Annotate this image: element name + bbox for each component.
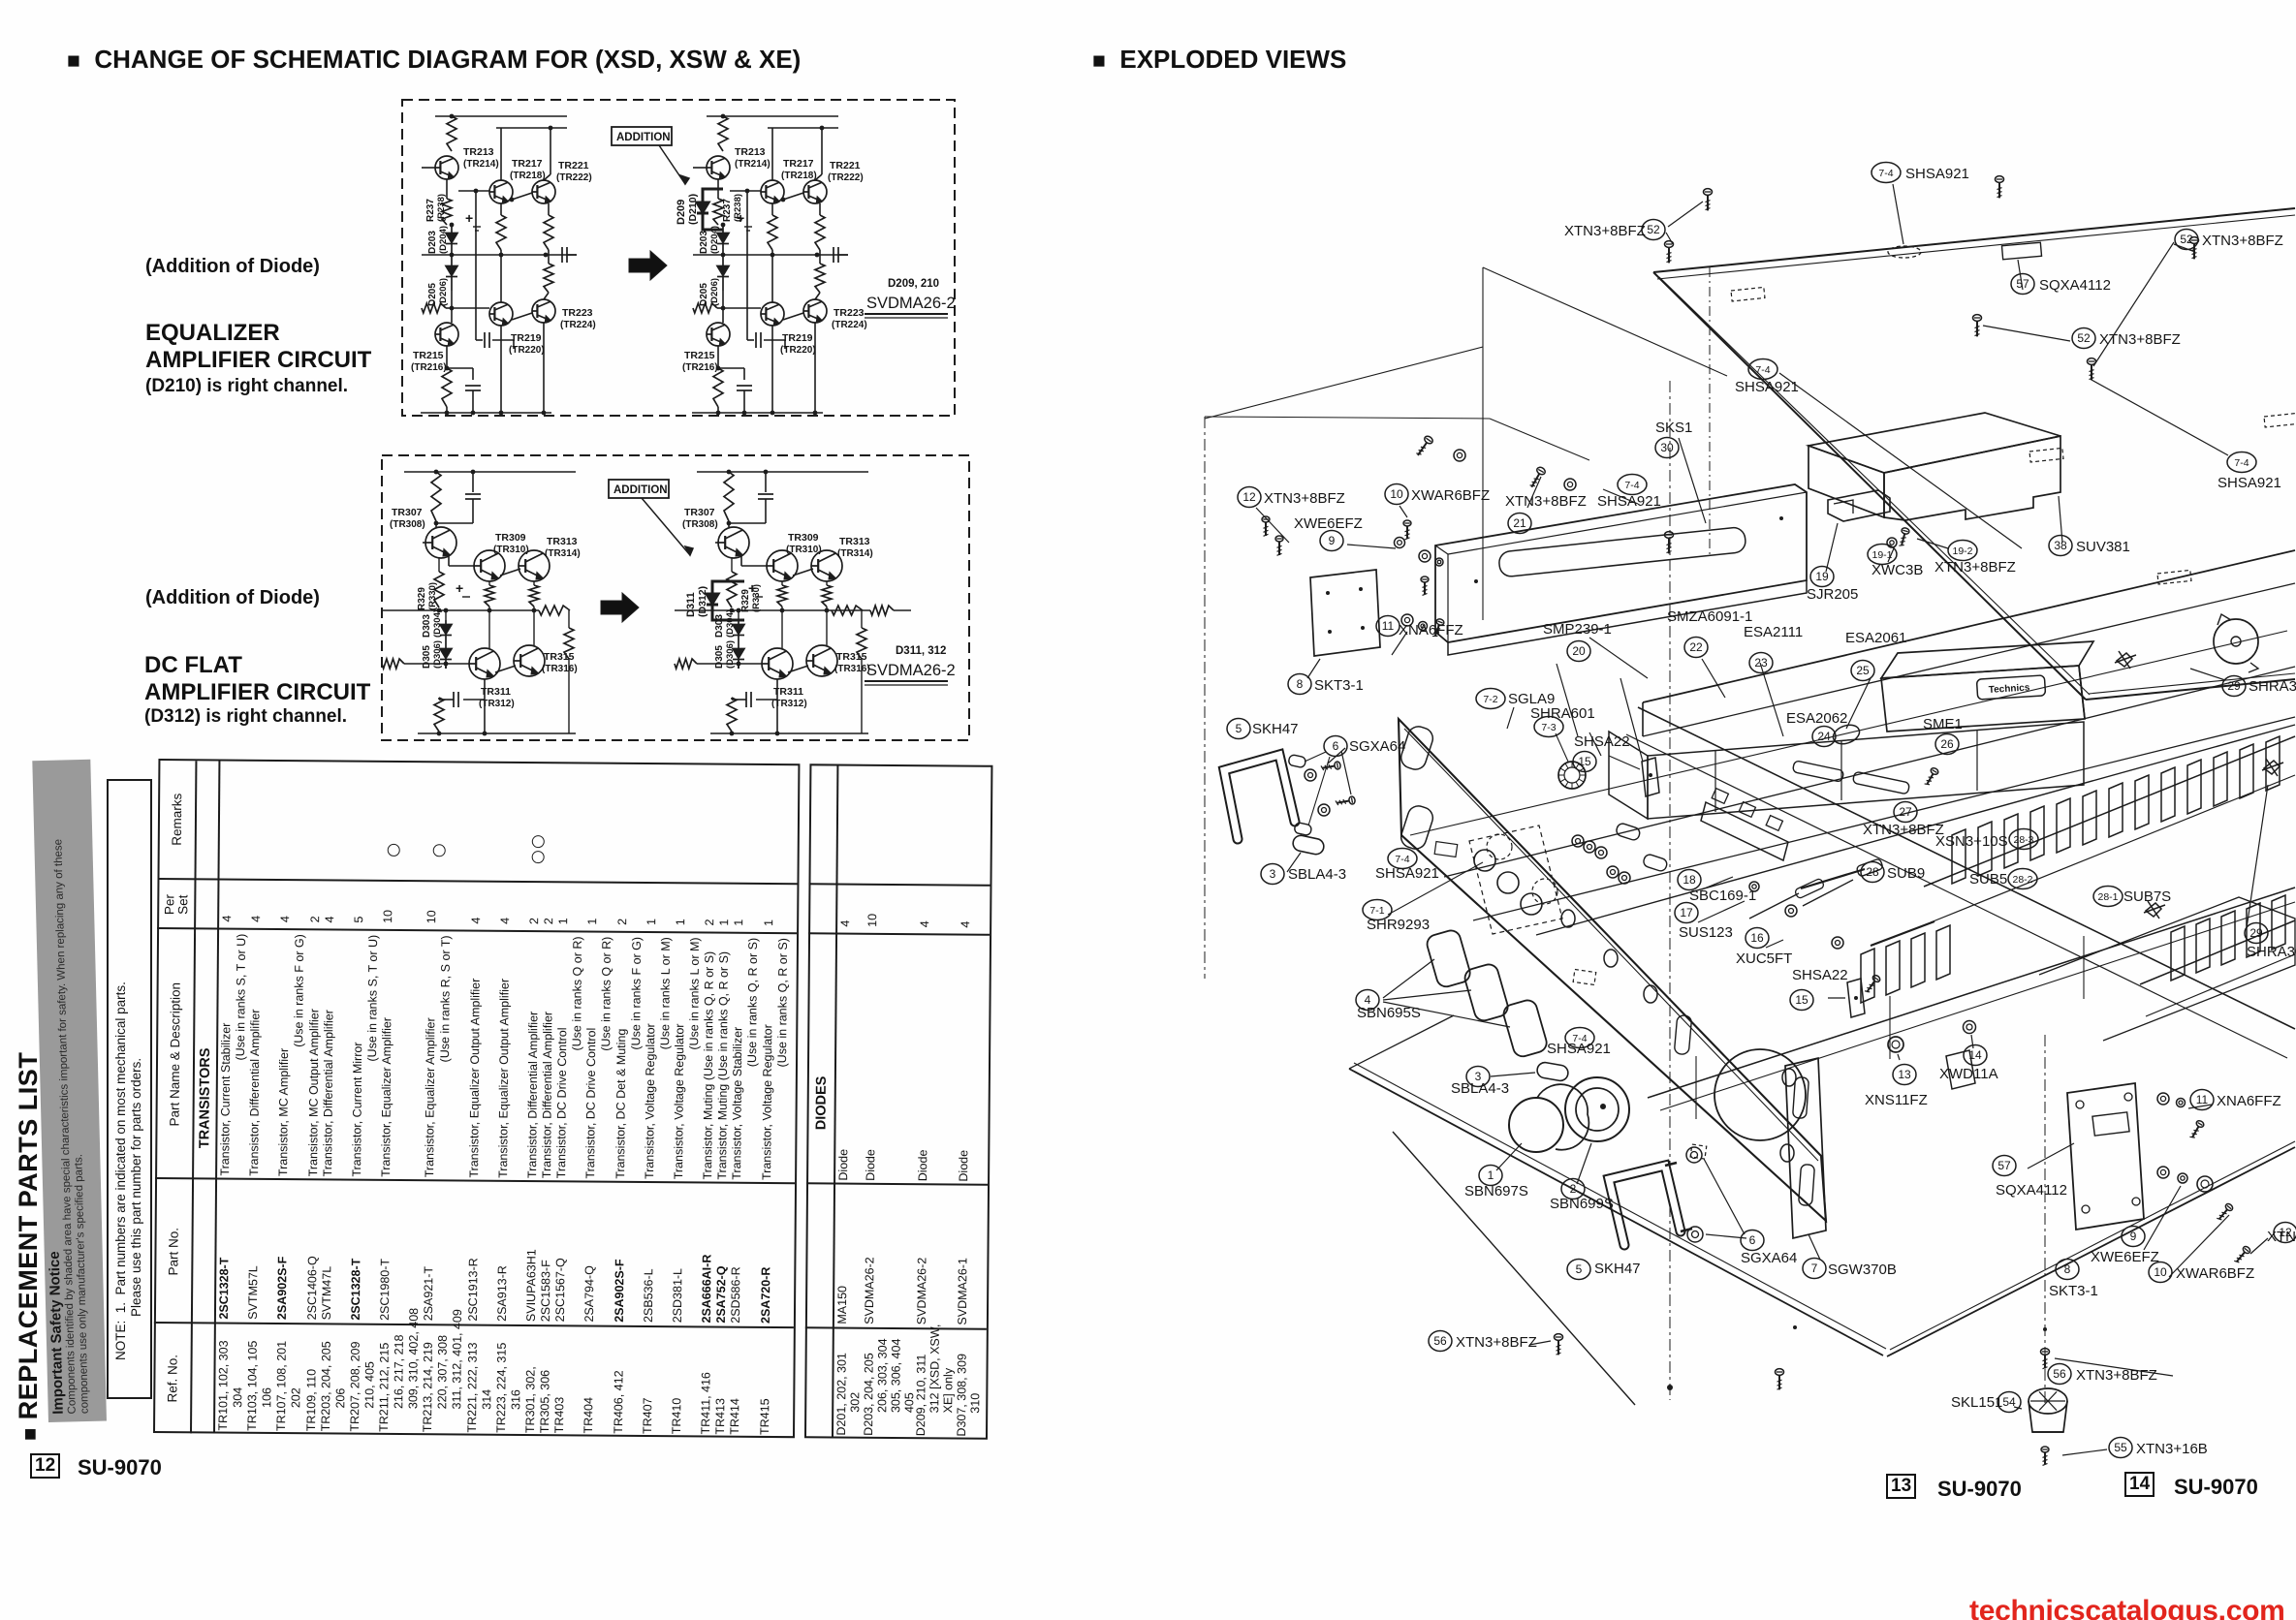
chassis front wall edges xyxy=(1638,707,2295,1029)
label circle 10 xyxy=(1385,484,1408,505)
label circle 17 xyxy=(1675,903,1698,923)
label circle 10 xyxy=(2149,1262,2172,1283)
dc flat circuit left half xyxy=(382,470,581,736)
svg-text:56: 56 xyxy=(1433,1334,1447,1348)
cylinder SBLA4-3 lower xyxy=(1536,1061,1569,1081)
svg-text:1: 1 xyxy=(1488,1168,1494,1182)
small bracket center xyxy=(1946,1050,1975,1089)
label circle 13 xyxy=(1893,1065,1916,1085)
svg-text:27: 27 xyxy=(1899,805,1912,819)
svg-text:ESA2111: ESA2111 xyxy=(1744,624,1803,640)
svg-text:SQXA4112: SQXA4112 xyxy=(1996,1182,2067,1199)
label circle 27 xyxy=(1894,802,1917,823)
handle SKH47 upper xyxy=(1224,755,1295,839)
bottom plate screws xyxy=(1555,1334,1563,1355)
label circle 8 xyxy=(1288,674,1311,695)
dc flat circuit right half xyxy=(675,470,873,736)
front panel big hole xyxy=(1714,1049,1806,1140)
svg-text:19: 19 xyxy=(1815,570,1829,583)
svg-text:28: 28 xyxy=(1866,865,1879,879)
svg-text:56: 56 xyxy=(2053,1367,2066,1381)
svg-text:21: 21 xyxy=(1513,516,1526,530)
cylinder SBLA4-3 upper xyxy=(1292,834,1326,856)
svg-text:30: 30 xyxy=(1660,441,1674,454)
svg-text:SGW370B: SGW370B xyxy=(1828,1262,1897,1278)
bracket SKT3-1 xyxy=(1310,570,1380,656)
label circle 38 xyxy=(2049,536,2072,556)
svg-text:SUV381: SUV381 xyxy=(2076,539,2130,555)
svg-text:5: 5 xyxy=(1576,1262,1583,1276)
label circle 23 xyxy=(1749,653,1773,673)
label circle 7-3 xyxy=(1534,717,1563,737)
svg-text:5: 5 xyxy=(1236,722,1242,735)
ADDITION callout box2 xyxy=(609,480,669,498)
svg-text:57: 57 xyxy=(2016,277,2029,291)
svg-text:XNA6FFZ: XNA6FFZ xyxy=(1399,622,1463,639)
cylinders SGXA64 upper xyxy=(1288,754,1306,767)
label circle 21 xyxy=(1508,514,1531,534)
label circle 9 xyxy=(1320,531,1343,551)
svg-text:17: 17 xyxy=(1680,906,1693,919)
replacement parts list title (rotated) xyxy=(14,1024,48,1441)
svg-text:SHSA22: SHSA22 xyxy=(1792,967,1848,983)
label circle 4 xyxy=(1356,990,1379,1011)
shafts xyxy=(1801,869,1865,888)
svg-text:XTN3+8BFZ: XTN3+8BFZ xyxy=(1934,559,2016,576)
svg-text:SHSA921: SHSA921 xyxy=(1597,493,1661,510)
label circle 28-1 xyxy=(2093,887,2123,907)
svg-text:54: 54 xyxy=(2002,1395,2016,1409)
svg-text:28-3: 28-3 xyxy=(2013,834,2033,846)
big change arrow box1 xyxy=(629,251,667,280)
label circle 7-4 xyxy=(2227,452,2256,473)
svg-text:SMZA6091-1: SMZA6091-1 xyxy=(1667,608,1752,625)
svg-text:15: 15 xyxy=(1578,755,1591,768)
label circle 15 xyxy=(1573,752,1596,772)
construction lines xyxy=(1669,381,1671,1400)
svg-text:SMP239-1: SMP239-1 xyxy=(1543,621,1612,638)
plate SHSA22 upper xyxy=(1642,758,1659,796)
label circle 29 xyxy=(2245,923,2268,944)
svg-text:7-4: 7-4 xyxy=(1755,364,1770,376)
svg-text:XUC5FT: XUC5FT xyxy=(1736,950,1792,967)
ADDITION callout box1 xyxy=(612,127,672,145)
handle screws xyxy=(1305,769,1316,781)
svg-text:SGXA64: SGXA64 xyxy=(1741,1250,1797,1266)
svg-text:3: 3 xyxy=(1270,867,1276,881)
buttons SBN695S xyxy=(1425,928,1472,989)
panel marker rects xyxy=(1434,842,1458,857)
svg-text:XTN3+8BFZ: XTN3+8BFZ xyxy=(1264,490,1345,507)
label circle 56 xyxy=(1429,1331,1452,1352)
svg-text:SME1: SME1 xyxy=(1923,716,1963,732)
equalizer circuit right half xyxy=(682,114,867,416)
label circle 11 xyxy=(1376,616,1400,637)
svg-text:SGXA64: SGXA64 xyxy=(1349,738,1405,755)
clip SHRA306 shapes xyxy=(2117,653,2132,667)
svg-text:SUB7S: SUB7S xyxy=(2123,888,2171,905)
panel dashed hole marks xyxy=(1888,246,1921,258)
dc flat amplifier schematic box xyxy=(382,455,969,740)
screws on cover xyxy=(1704,189,1713,211)
watermark xyxy=(1969,1595,2284,1620)
svg-text:SHSA921: SHSA921 xyxy=(2217,475,2281,491)
svg-text:XTN3+8BFZ: XTN3+8BFZ xyxy=(2099,331,2181,348)
svg-text:SHRA601: SHRA601 xyxy=(1530,705,1595,722)
svg-text:SUB5: SUB5 xyxy=(1969,871,2007,888)
svg-text:XTN3+8BFZ: XTN3+8BFZ xyxy=(2076,1367,2157,1384)
svg-text:SKL151: SKL151 xyxy=(1951,1394,2002,1411)
svg-text:14: 14 xyxy=(1968,1048,1982,1062)
svg-text:SHRA306: SHRA306 xyxy=(2247,944,2296,960)
label circle 57 xyxy=(1993,1156,2016,1176)
svg-text:SHSA921: SHSA921 xyxy=(1735,379,1799,395)
label circle 16 xyxy=(1746,928,1769,949)
sub board SHR9293 dashed outline xyxy=(1469,826,1562,934)
svg-text:XWE6EFZ: XWE6EFZ xyxy=(1294,515,1363,532)
label circle 19-2 xyxy=(1948,541,1977,561)
svg-text:SQXA4112: SQXA4112 xyxy=(2039,277,2111,294)
bracket SJR205 xyxy=(1828,490,1890,521)
svg-text:29: 29 xyxy=(2249,926,2263,940)
chassis lower tray edges xyxy=(1536,725,2295,935)
front panel slots xyxy=(1399,724,1435,772)
XNS11FZ nut + XWD11A washer xyxy=(1888,1037,1903,1052)
caption addition of diode (equalizer) xyxy=(145,256,320,278)
leader lines cover xyxy=(1668,202,1703,227)
front panel small holes xyxy=(1561,910,1575,927)
svg-text:10: 10 xyxy=(1390,487,1403,501)
svg-text:SBN699S: SBN699S xyxy=(1550,1196,1614,1212)
big change arrow box2 xyxy=(601,593,639,622)
svg-text:15: 15 xyxy=(1795,993,1808,1007)
label circle 7-4 xyxy=(1388,849,1417,869)
caption equalizer amplifier circuit xyxy=(145,320,371,374)
top cover sheet SHSA921 area xyxy=(1653,208,2295,272)
svg-text:XWD11A: XWD11A xyxy=(1939,1066,1998,1082)
svg-text:7-4: 7-4 xyxy=(2234,457,2249,469)
svg-text:8: 8 xyxy=(1297,677,1304,691)
svg-text:XTN3+8BFZ: XTN3+8BFZ xyxy=(1505,493,1587,510)
page number 14 xyxy=(2124,1472,2154,1497)
svg-text:SBLA4-3: SBLA4-3 xyxy=(1451,1080,1509,1097)
svg-text:7-2: 7-2 xyxy=(1483,694,1497,705)
heatsink base rails xyxy=(1924,736,2295,887)
label circle 54 xyxy=(1997,1392,2021,1413)
label circle 14 xyxy=(1964,1045,1987,1066)
label circle 12 xyxy=(2274,1223,2296,1243)
svg-text:28-1: 28-1 xyxy=(2097,891,2118,903)
label circle 29 xyxy=(2222,676,2246,697)
svg-text:XTN3+8BFZ: XTN3+8BFZ xyxy=(1564,223,1646,239)
label circle 30 xyxy=(1655,438,1679,458)
label circle 28 xyxy=(1861,862,1884,883)
screw + washer above rail xyxy=(1414,435,1433,458)
label circle 6 xyxy=(1324,736,1347,757)
label circle 1 xyxy=(1479,1166,1502,1186)
svg-text:7-3: 7-3 xyxy=(1541,722,1556,733)
parts table (rotated) xyxy=(153,759,991,1440)
section title: change of schematic diagram xyxy=(67,45,801,75)
note box (rotated) xyxy=(107,779,152,1399)
label circle 28-3 xyxy=(2009,829,2038,850)
label circle 20 xyxy=(1567,641,1590,662)
svg-text:18: 18 xyxy=(1683,873,1696,887)
plate SHSA22 lower xyxy=(1847,979,1865,1017)
chassis center body xyxy=(1609,732,1648,819)
screws washers left cluster xyxy=(1262,516,1270,536)
label circle 18 xyxy=(1678,870,1701,890)
foot SKL151 xyxy=(2029,1388,2067,1414)
knob SBN697S xyxy=(1509,1098,1563,1152)
label circle 7-1 xyxy=(1363,900,1392,920)
ring SBN699S xyxy=(1565,1077,1629,1141)
svg-text:XWE6EFZ: XWE6EFZ xyxy=(2091,1249,2159,1265)
svg-text:SBLA4-3: SBLA4-3 xyxy=(1288,866,1346,883)
svg-text:7-4: 7-4 xyxy=(1395,854,1409,865)
svg-text:11: 11 xyxy=(2196,1093,2209,1106)
label circle 52 xyxy=(2072,328,2095,349)
caption dc flat amplifier circuit xyxy=(144,652,370,706)
svg-text:SHRA306: SHRA306 xyxy=(2249,678,2296,695)
svg-text:7: 7 xyxy=(1811,1262,1818,1275)
svg-text:25: 25 xyxy=(1856,664,1870,677)
svg-text:26: 26 xyxy=(1940,737,1954,751)
diode D209 addition branch xyxy=(703,189,723,230)
handle SKH47 lower xyxy=(1609,1166,1681,1245)
label circle 5 xyxy=(1567,1260,1590,1280)
svg-text:SHSA921: SHSA921 xyxy=(1547,1041,1611,1057)
svg-text:SKT3-1: SKT3-1 xyxy=(1314,677,1364,694)
svg-text:XTN: XTN xyxy=(2267,1229,2296,1245)
svg-text:XTN3+8BFZ: XTN3+8BFZ xyxy=(2202,233,2283,249)
svg-text:ESA2061: ESA2061 xyxy=(1845,630,1906,646)
label circle 5 xyxy=(1227,719,1250,739)
svg-text:XTN3+8BFZ: XTN3+8BFZ xyxy=(1863,822,1944,838)
front panel SHR9293 xyxy=(1399,719,1826,1221)
svg-text:SHSA921: SHSA921 xyxy=(1375,865,1439,882)
leader lines misc xyxy=(1679,438,1706,523)
svg-text:9: 9 xyxy=(2130,1230,2137,1243)
svg-text:XNA6FFZ: XNA6FFZ xyxy=(2217,1093,2281,1109)
svg-text:20: 20 xyxy=(1572,644,1586,658)
label circle 7-4 xyxy=(1565,1028,1594,1048)
svg-text:XWAR6BFZ: XWAR6BFZ xyxy=(1411,487,1490,504)
label circle 8 xyxy=(2056,1260,2079,1280)
label circle 12 xyxy=(1238,487,1261,508)
svg-text:19-2: 19-2 xyxy=(1952,545,1972,557)
label circle 24 xyxy=(1812,727,1836,747)
important safety notice gray strip (rotated) xyxy=(32,760,107,1422)
svg-text:SHR9293: SHR9293 xyxy=(1367,917,1430,933)
fasteners right cluster xyxy=(2157,1093,2169,1105)
bottom plate xyxy=(1349,1069,1883,1355)
transformer SME1 Technics box xyxy=(1881,641,2093,678)
svg-text:2: 2 xyxy=(1570,1182,1577,1196)
svg-text:SKH47: SKH47 xyxy=(1594,1261,1641,1277)
svg-text:7-4: 7-4 xyxy=(1878,168,1893,179)
caption addition of diode (dc flat) xyxy=(145,587,320,609)
label circle 26 xyxy=(1935,734,1959,755)
equalizer amplifier schematic box xyxy=(402,100,955,416)
svg-text:Technics: Technics xyxy=(1989,682,2031,696)
label circle 52 xyxy=(2175,230,2198,250)
page number 12 xyxy=(30,1453,60,1479)
label circle 3 xyxy=(1466,1067,1490,1087)
svg-text:SBN695S: SBN695S xyxy=(1357,1005,1421,1021)
label circle 11 xyxy=(2190,1090,2214,1110)
cover SUV381 xyxy=(1808,413,2060,473)
svg-text:XTN3+16B: XTN3+16B xyxy=(2136,1441,2208,1457)
label circle 6 xyxy=(1741,1231,1764,1251)
heatsink fins xyxy=(1952,829,1966,884)
svg-text:6: 6 xyxy=(1749,1233,1756,1247)
svg-text:19-1: 19-1 xyxy=(1871,549,1892,561)
svg-text:52: 52 xyxy=(1647,223,1660,236)
svg-text:XTN3+8BFZ: XTN3+8BFZ xyxy=(1456,1334,1537,1351)
pcb on front wall xyxy=(1701,802,1788,860)
svg-text:XSN3+10S: XSN3+10S xyxy=(1935,833,2008,850)
svg-text:12: 12 xyxy=(1242,490,1256,504)
svg-text:8: 8 xyxy=(2064,1262,2071,1276)
svg-text:52: 52 xyxy=(2180,233,2193,246)
page number 13 xyxy=(1886,1474,1916,1499)
svg-text:10: 10 xyxy=(2154,1265,2167,1279)
svg-text:SUS123: SUS123 xyxy=(1679,924,1733,941)
svg-text:57: 57 xyxy=(1997,1159,2011,1172)
svg-text:SHSA921: SHSA921 xyxy=(1905,166,1969,182)
label circle 7-4 xyxy=(1871,163,1901,183)
svg-text:SJR205: SJR205 xyxy=(1807,586,1858,603)
svg-text:16: 16 xyxy=(1750,931,1764,945)
label circle 22 xyxy=(1684,638,1708,658)
rail SKS1 front escutcheon xyxy=(1435,484,1807,642)
svg-text:24: 24 xyxy=(1817,730,1831,743)
svg-text:13: 13 xyxy=(1898,1068,1911,1081)
svg-text:SKH47: SKH47 xyxy=(1252,721,1299,737)
svg-text:7-4: 7-4 xyxy=(1624,480,1639,491)
label circle 19 xyxy=(1810,567,1834,587)
chassis deck edges xyxy=(1444,667,2295,877)
svg-text:SKS1: SKS1 xyxy=(1655,420,1692,436)
label circle 3 xyxy=(1261,864,1284,885)
svg-text:SUB9: SUB9 xyxy=(1887,865,1925,882)
label circle 7-4 xyxy=(1618,475,1647,495)
svg-text:XWC3B: XWC3B xyxy=(1871,562,1923,578)
label circle 25 xyxy=(1851,661,1874,681)
svg-text:9: 9 xyxy=(1329,534,1336,547)
small parts cluster middle xyxy=(1831,722,1862,747)
label circle 28-2 xyxy=(2008,869,2037,889)
label circle 19-1 xyxy=(1868,545,1897,565)
svg-text:SHSA22: SHSA22 xyxy=(1574,733,1630,750)
label circle 57 xyxy=(2011,274,2034,295)
label circle 56 xyxy=(2048,1364,2071,1385)
label circle 15 xyxy=(1790,990,1813,1011)
label circle 7 xyxy=(1803,1259,1826,1279)
svg-text:22: 22 xyxy=(1689,640,1703,654)
svg-text:11: 11 xyxy=(1382,619,1395,633)
wire bus extension right box2 xyxy=(832,609,870,611)
svg-text:6: 6 xyxy=(1333,739,1339,753)
equalizer circuit left half xyxy=(411,114,596,416)
bracket SGW370B xyxy=(1785,1058,1826,1238)
svg-text:23: 23 xyxy=(1754,656,1768,670)
label circle 9 xyxy=(2122,1227,2145,1247)
svg-text:XWAR6BFZ: XWAR6BFZ xyxy=(2176,1265,2254,1282)
knurled knob SHRA601 xyxy=(1558,762,1586,789)
svg-text:55: 55 xyxy=(2114,1441,2127,1454)
svg-text:SKT3-1: SKT3-1 xyxy=(2049,1283,2098,1299)
svg-text:SBC169-1: SBC169-1 xyxy=(1689,888,1756,904)
svg-text:29: 29 xyxy=(2227,679,2241,693)
label circle 7-4 xyxy=(1748,359,1777,380)
rear panel SQXA4112 xyxy=(2067,1083,2144,1230)
svg-text:ESA2062: ESA2062 xyxy=(1786,710,1847,727)
section title: exploded views xyxy=(1092,45,1346,75)
chassis rear rail xyxy=(1643,550,2295,702)
label circle 55 xyxy=(2109,1438,2132,1458)
label circle 52 xyxy=(1642,220,1665,240)
svg-text:28-2: 28-2 xyxy=(2012,874,2032,886)
svg-text:52: 52 xyxy=(2077,331,2091,345)
svg-text:SBN697S: SBN697S xyxy=(1464,1183,1528,1199)
diode D311 addition branch xyxy=(712,581,744,620)
svg-text:7-1: 7-1 xyxy=(1369,905,1384,917)
svg-text:XNS11FZ: XNS11FZ xyxy=(1865,1092,1928,1108)
label circle 2 xyxy=(1561,1179,1585,1199)
motor part right xyxy=(2214,619,2258,664)
svg-text:38: 38 xyxy=(2054,539,2067,552)
label circle 7-2 xyxy=(1476,689,1505,709)
dust cover construction diagonal xyxy=(1205,347,1483,419)
